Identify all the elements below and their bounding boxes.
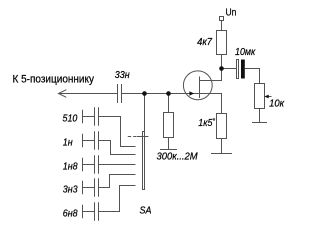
- node C junction dot: [219, 66, 224, 71]
- resistor R1 300к...2М: wire from node B down: [168, 94, 170, 113]
- resistor R3 10к body: [255, 84, 265, 109]
- svg-text:1н: 1н: [63, 137, 73, 149]
- ground under R4: [211, 153, 232, 155]
- wire: C5 to switch contact 5: [99, 186, 136, 212]
- svg-text:10к: 10к: [269, 98, 285, 110]
- wire: terminal to R2: [221, 21, 223, 31]
- resistor R4 1к5* body: [217, 114, 227, 139]
- resistor R2 4к7 body: [217, 31, 227, 55]
- svg-text:1н8: 1н8: [63, 161, 78, 173]
- capacitor C3 1н8: leads and plates: [83, 164, 95, 166]
- capacitor C1 510: left terminal: [82, 110, 84, 124]
- resistor R1 300к...2М body: [164, 113, 174, 138]
- capacitor C2 1н: left terminal: [82, 134, 84, 148]
- capacitor C4 3н3: leads and plates: [83, 187, 95, 189]
- svg-text:3н3: 3н3: [63, 184, 78, 196]
- capacitor C5 6н8: left terminal: [82, 205, 84, 219]
- node B junction dot: [166, 91, 171, 96]
- switch SA: wire from node A down: [144, 94, 146, 132]
- capacitor C4 3н3: left terminal: [82, 181, 84, 195]
- wire: R3 to ground: [259, 109, 261, 123]
- transistor VT1 drain lead: [200, 69, 222, 81]
- transistor VT1 (JFET) circle: [183, 71, 212, 100]
- capacitor C3 1н8: left terminal: [82, 158, 84, 172]
- capacitor C6 10мк: wire from node C: [222, 68, 237, 70]
- svg-text:Un: Un: [226, 7, 237, 18]
- transistor VT1 channel: [199, 77, 201, 99]
- svg-text:10мк: 10мк: [235, 46, 256, 58]
- capacitor 33н: [117, 84, 119, 103]
- wire: output line to 5-position switch (with arrow): [59, 90, 67, 98]
- svg-text:300к...2М: 300к...2М: [157, 151, 199, 163]
- capacitor C5 6н8: leads and plates: [83, 211, 95, 213]
- svg-text:6н8: 6н8: [63, 208, 78, 220]
- switch SA: mechanical link dashed line: [128, 136, 137, 138]
- svg-text:SA: SA: [140, 205, 152, 217]
- svg-text:33н: 33н: [115, 69, 130, 81]
- ground under R3: [252, 122, 267, 124]
- capacitor C1 510: leads and plates: [83, 116, 95, 118]
- transistor VT1 gate arrow: [189, 91, 194, 95]
- wire: R2 to node C: [221, 55, 223, 69]
- wire: C2 to switch contact 2: [99, 141, 136, 155]
- capacitor C6 10мк: filled plate: [241, 60, 245, 79]
- power terminal Un square: [220, 17, 224, 21]
- wire: main line from cap through node A, node B to transistor gate: [122, 93, 200, 95]
- resistor R3 trimmer arrow: [266, 96, 272, 98]
- wire: C4 to switch contact 4: [99, 175, 136, 188]
- capacitor C6 10мк: open plate: [237, 60, 239, 79]
- wire: R1 to ground: [168, 138, 170, 150]
- wire: C6 to R3: [245, 69, 260, 84]
- switch SA: wiper contact tick: [137, 136, 149, 138]
- svg-text:К 5-позиционнику: К 5-позиционнику: [13, 73, 95, 86]
- transistor VT1 source lead: [200, 94, 222, 114]
- svg-text:4к7: 4к7: [197, 37, 212, 49]
- capacitor C2 1н: leads and plates: [83, 140, 95, 142]
- wire: R4 to ground: [221, 139, 223, 154]
- ground under R1: [160, 149, 177, 151]
- svg-text:510: 510: [63, 113, 78, 125]
- wire: C1 to switch contact 1: [99, 117, 136, 147]
- node A junction dot: [142, 91, 147, 96]
- wire: C3 to switch contact 3: [99, 164, 136, 166]
- switch SA: movable bar: [143, 132, 145, 190]
